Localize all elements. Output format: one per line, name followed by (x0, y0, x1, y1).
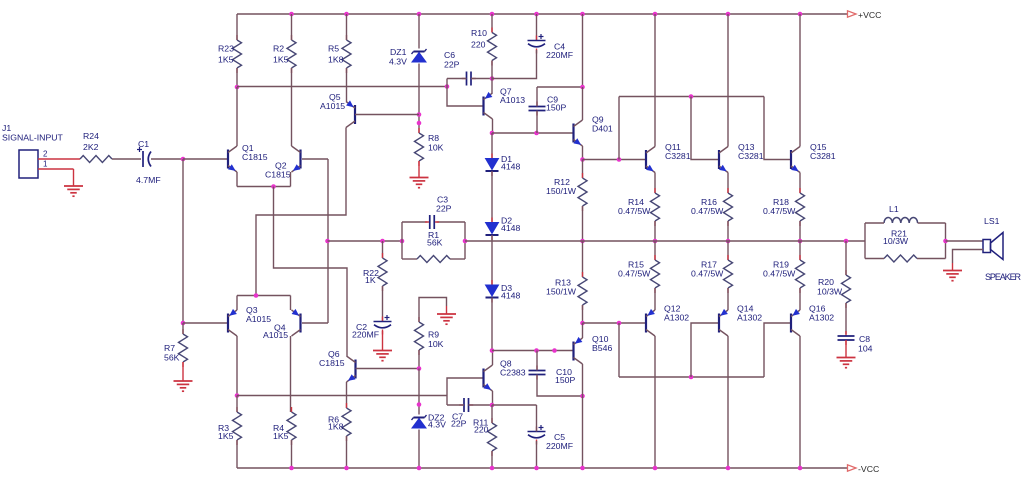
wire R11 to rail (491, 451, 493, 468)
wire R24 to C1 (112, 158, 141, 160)
wire Q9 emitter node to Q11 base (583, 159, 647, 161)
node R5 top rail junction (344, 12, 349, 17)
wire feedback node to R1 box (328, 240, 403, 242)
wire input node down to Q3 base (182, 159, 184, 323)
wire R13 to Q10 emitter node (582, 305, 584, 323)
node output mid junction (580, 239, 585, 244)
svg-text:0.47/5W: 0.47/5W (618, 206, 651, 216)
svg-text:R8: R8 (428, 133, 439, 143)
connector J1 (2, 123, 64, 178)
ground below C2 (373, 351, 392, 361)
wire D1 to D2 (491, 171, 493, 223)
label Q4 (263, 323, 288, 341)
capacitor C3 (425, 195, 452, 230)
wire node to Q3 base (183, 322, 228, 324)
wire Q11 emitter (654, 173, 656, 194)
wire feedback vertical (327, 159, 329, 323)
node speaker junction (943, 239, 948, 244)
node Q5 base junction (417, 112, 422, 117)
wire DZ2 to rail (418, 430, 420, 469)
capacitor C4 (528, 34, 574, 60)
svg-text:D401: D401 (592, 124, 613, 134)
svg-text:SIGNAL-INPUT: SIGNAL-INPUT (2, 133, 64, 143)
wire output network left side (864, 223, 866, 259)
svg-text:R7: R7 (164, 343, 175, 353)
wire Q3 collector to Q8 base line (237, 395, 447, 397)
speaker LS1 (983, 216, 1022, 282)
wire output network right side (945, 223, 947, 259)
svg-text:A1015: A1015 (263, 330, 288, 340)
node Q9 rail junction (580, 12, 585, 17)
diode D3 (486, 280, 521, 303)
node Q7 base rail junction (445, 84, 450, 89)
wire Q3 Q4 emitter rail (237, 295, 291, 297)
wire C6 left lead (447, 78, 467, 80)
wire output line right (583, 240, 866, 242)
resistor R14 (618, 188, 660, 226)
node Q10 emitter junction (580, 321, 585, 326)
diode D2 (486, 216, 521, 241)
transistor Q6 (347, 356, 356, 382)
wire Q5 collector path (256, 128, 346, 296)
resistor R1 (417, 230, 450, 263)
wire +VCC top rail (237, 13, 848, 15)
wire C2 to ground (382, 331, 384, 351)
wire Q16 collector to rail (799, 336, 801, 468)
svg-text:10K: 10K (428, 339, 444, 349)
node Q8 collector junction (490, 348, 495, 353)
svg-text:LS1: LS1 (984, 216, 1000, 226)
node Q13 rail junction (726, 12, 731, 17)
node feedback junction (325, 239, 330, 244)
resistor R23 (218, 35, 242, 73)
node Q10 base pin junction (552, 348, 557, 353)
svg-text:J1: J1 (2, 123, 11, 133)
transistor Q13 (719, 142, 764, 173)
svg-text:C1815: C1815 (319, 358, 345, 368)
wire +VCC to R23 (236, 14, 238, 40)
node DZ1 top rail junction (417, 12, 422, 17)
node A Q1 collector junction (235, 85, 240, 90)
wire Q9 emitter node to R12 (582, 160, 584, 179)
node upper bus junction (617, 157, 622, 162)
wire Q7 collector to Q9 base (492, 132, 574, 134)
svg-text:22P: 22P (451, 419, 467, 429)
wire Q1 collector rail (237, 86, 447, 88)
svg-text:C8: C8 (859, 334, 870, 344)
wire R1 box to output mid (465, 240, 583, 242)
svg-text:B546: B546 (592, 343, 612, 353)
ground above DZ2 via arm (437, 314, 456, 324)
svg-text:A1302: A1302 (737, 313, 762, 323)
wire R1 box top branch (402, 221, 465, 223)
wire Q6 base (356, 368, 420, 370)
wire rail to Q15 collector (799, 14, 801, 147)
wire Q13 emitter (727, 173, 729, 194)
wire Q8 base up (447, 378, 484, 396)
wire speaker ground stem (952, 263, 954, 271)
svg-text:56K: 56K (164, 353, 180, 363)
svg-text:R10: R10 (471, 28, 487, 38)
pin 1 of J1 (38, 160, 74, 170)
wire R22 top (382, 241, 384, 258)
wire Q10 emitter node to Q12 base (583, 322, 647, 324)
resistor R20 (817, 270, 851, 308)
wire Q2 emitter (290, 172, 292, 187)
node Q12 rail junction (653, 466, 658, 471)
wire R3 to rail (236, 440, 238, 468)
node R4 rail junction (289, 466, 294, 471)
wire Q8 collector (492, 351, 494, 366)
node Q7 emitter junction (490, 76, 495, 81)
svg-text:150P: 150P (546, 103, 566, 113)
svg-text:10K: 10K (428, 143, 444, 153)
transistor Q11 (646, 142, 691, 173)
node Q11 rail junction (653, 12, 658, 17)
wire R10 to Q7 emitter node (491, 61, 493, 79)
wire Q8 collector to Q10 base (492, 350, 574, 352)
svg-text:0.47/5W: 0.47/5W (691, 269, 724, 279)
wire R9 top to ground arm (419, 298, 447, 323)
node C9 bottom junction (534, 131, 539, 136)
node DZ2 rail junction (417, 466, 422, 471)
wire rail to DZ1 (418, 14, 420, 49)
wire upper bus riser right (764, 97, 791, 160)
svg-text:C1815: C1815 (242, 152, 268, 162)
wire Q8 emitter node to C5 (492, 404, 537, 406)
svg-text:-VCC: -VCC (858, 464, 879, 474)
svg-text:A1015: A1015 (246, 314, 271, 324)
wire Q14 collector to rail (727, 336, 729, 468)
resistor R17 (691, 255, 733, 293)
node C10 Q10 collector junction (580, 394, 585, 399)
svg-text:0.47/5W: 0.47/5W (691, 206, 724, 216)
resistor R1 with C3 box left side (401, 222, 403, 259)
wire output to R20 (845, 241, 847, 275)
svg-text:220MF: 220MF (546, 50, 573, 60)
wire C7 left lead (447, 404, 464, 406)
wire -VCC bottom rail (237, 467, 848, 469)
wire R16 to output line (727, 221, 729, 241)
node Q3 collector junction (235, 393, 240, 398)
resistor R11 (473, 418, 497, 457)
power +VCC arrow (848, 10, 882, 20)
resistor R12 (546, 173, 587, 211)
transistor Q12 (646, 304, 689, 337)
wire lower bus dropper left (618, 323, 620, 377)
node R8 pin junction (417, 121, 422, 126)
wire Q7 collector node to D1 (491, 133, 493, 159)
wire R15 to emitter (654, 288, 656, 310)
node Q9 emitter junction (580, 157, 585, 162)
wire rail to R2 (291, 14, 293, 40)
capacitor C8 (838, 331, 873, 354)
zener diode DZ1 (389, 47, 427, 67)
node Q7 collector junction (490, 131, 495, 136)
wire Q8 base from line (446, 396, 448, 406)
capacitor C9 (529, 95, 567, 116)
svg-text:4.3V: 4.3V (389, 57, 407, 67)
wire R18 to output line (799, 221, 801, 241)
resistor R13 (546, 272, 587, 310)
wire R1 box right side (464, 222, 466, 259)
svg-text:DZ1: DZ1 (390, 47, 407, 57)
svg-text:220: 220 (474, 425, 489, 435)
node Q8 emitter junction (490, 403, 495, 408)
svg-text:0.47/5W: 0.47/5W (763, 269, 796, 279)
node R2 top rail junction (289, 12, 294, 17)
wire upper bus riser mid (691, 97, 719, 160)
resistor R19 (763, 255, 805, 293)
node R14 output junction (653, 239, 658, 244)
wire C5 to rail (536, 441, 538, 468)
svg-text:R2: R2 (273, 44, 284, 54)
transistor Q5 (346, 100, 355, 127)
svg-text:1K8: 1K8 (328, 422, 344, 432)
wire Q1 collector (236, 87, 238, 146)
svg-text:C3281: C3281 (738, 151, 764, 161)
node R6 rail junction (344, 466, 349, 471)
resistor R7 (164, 329, 188, 367)
resistor R2 (273, 35, 296, 73)
node Q16 rail junction (798, 466, 803, 471)
resistor R8 (415, 128, 444, 166)
transistor Q16 (791, 304, 834, 337)
transistor Q15 (791, 142, 836, 173)
wire R23 to node A (236, 68, 238, 87)
resistor R24 (80, 131, 112, 163)
node lower bus junction (617, 321, 622, 326)
wire C9 bottom lead (536, 111, 538, 134)
capacitor C6 (444, 50, 476, 86)
svg-text:4148: 4148 (501, 291, 520, 301)
wire tail to Q6 collector (274, 187, 348, 357)
wire C5 top lead (536, 405, 538, 432)
resistor R10 (471, 28, 497, 66)
svg-text:220: 220 (471, 40, 486, 50)
node R16 output junction (726, 239, 731, 244)
svg-text:R5: R5 (328, 44, 339, 54)
wire rail to Q9 collector node (582, 14, 584, 87)
svg-text:220MF: 220MF (352, 330, 379, 340)
wire lower base bus (619, 376, 764, 378)
transistor Q3 (228, 309, 237, 336)
wire D2 to D3 (491, 235, 493, 285)
svg-text:A1013: A1013 (500, 95, 525, 105)
wire C7 right lead (469, 404, 493, 406)
resistor R6 (328, 403, 351, 441)
svg-text:C3281: C3281 (810, 151, 836, 161)
svg-text:1K: 1K (365, 275, 376, 285)
svg-text:1K5: 1K5 (218, 55, 234, 65)
wire C10 top lead (536, 351, 538, 371)
svg-text:A1302: A1302 (664, 313, 689, 323)
svg-text:4148: 4148 (501, 223, 520, 233)
wire C8 to ground (845, 340, 847, 358)
resistor R21 (883, 229, 917, 263)
node Q3 base junction (181, 321, 186, 326)
capacitor C5 (528, 425, 574, 451)
svg-text:0.47/5W: 0.47/5W (763, 206, 796, 216)
wire C1 to input node (151, 158, 183, 160)
wire C4 to Q7 emitter node (492, 50, 537, 79)
wire node up to C6 (446, 79, 448, 87)
resistor R15 (618, 255, 660, 293)
wire lower bus dropper mid (691, 323, 719, 377)
node input junction (181, 157, 186, 162)
svg-text:4.7MF: 4.7MF (136, 175, 161, 185)
node R18 output junction (798, 239, 803, 244)
wire Q3 collector (236, 336, 238, 396)
svg-text:150/1W: 150/1W (546, 186, 577, 196)
transistor Q9 (574, 115, 613, 147)
svg-text:22P: 22P (444, 60, 460, 70)
node diff pair tail junction (271, 184, 276, 189)
wire R5 to Q5 emitter (346, 68, 348, 102)
svg-text:C1815: C1815 (265, 170, 291, 180)
wire Q9 emitter (582, 146, 584, 160)
ground below R7 (174, 381, 193, 391)
node DZ2 pin junction (417, 402, 422, 407)
svg-text:1: 1 (43, 160, 48, 169)
node Q9 collector junction (580, 85, 585, 90)
svg-text:2: 2 (43, 150, 48, 159)
wire Q10 emitter (582, 323, 584, 338)
label Q6 (319, 349, 345, 368)
svg-text:10/3W: 10/3W (883, 236, 909, 246)
wire Q10 collector (582, 364, 584, 468)
wire R12 to output line (582, 206, 584, 241)
wire R19 to emitter (799, 288, 801, 310)
resistor R3 (218, 407, 242, 445)
capacitor C2 (352, 315, 392, 340)
svg-text:0.47/5W: 0.47/5W (618, 269, 651, 279)
node Q15 rail junction (798, 12, 803, 17)
transistor Q8 (484, 359, 526, 392)
wire output line to R19 (799, 241, 801, 260)
pin 2 of J1 (38, 150, 80, 160)
ground at speaker (943, 271, 962, 281)
wire upper base bus (619, 96, 764, 98)
resistor R4 (273, 407, 296, 445)
wire Q7 emitter (491, 79, 493, 94)
svg-text:22P: 22P (436, 204, 452, 214)
transistor Q4 (292, 309, 301, 336)
svg-text:C3281: C3281 (665, 151, 691, 161)
node lower pair tail junction (254, 293, 259, 298)
resistor R5 (328, 35, 351, 73)
wire Q3 emitter (236, 296, 238, 311)
wire R6 to rail (346, 436, 348, 468)
node R22 junction (380, 239, 385, 244)
zener diode DZ2 (412, 413, 447, 430)
wire R20 to C8 (845, 303, 847, 334)
svg-text:1K5: 1K5 (218, 431, 234, 441)
node R20 junction (844, 239, 849, 244)
wire rail to C4 (536, 14, 538, 41)
ground at J1 (64, 186, 83, 196)
wire output line to R17 (727, 241, 729, 260)
svg-text:SPEAKER: SPEAKER (985, 272, 1022, 282)
wire Q9 collector (582, 87, 584, 120)
wire Q6 emitter to R6 (346, 382, 348, 408)
wire Q4 collector (290, 336, 292, 412)
wire C9 top to Q9 collector node (537, 86, 583, 88)
node lower bus mid junction (689, 375, 694, 380)
wire output line to R15 (654, 241, 656, 260)
wire Q12 collector to rail (654, 336, 656, 468)
wire R9 bottom to Q6 base node (418, 350, 420, 369)
transistor Q14 (719, 304, 762, 337)
node Q14 rail junction (726, 466, 731, 471)
wire rail to Q13 collector (727, 14, 729, 147)
wire R21 bottom branch (865, 258, 946, 260)
wire node to R3 (236, 396, 238, 413)
wire Q15 emitter (799, 173, 801, 194)
wire rail to R5 (346, 14, 348, 40)
wire R2 to Q2 collector (291, 68, 293, 146)
wire rail to Q11 collector (654, 14, 656, 147)
svg-text:L1: L1 (889, 204, 899, 214)
wire upper bus riser left (618, 97, 620, 160)
wire R8 to ground (418, 161, 420, 178)
svg-text:R24: R24 (83, 131, 99, 141)
wire C6 right lead (471, 78, 492, 80)
wire to speaker (946, 240, 984, 242)
wire D3 to Q8 collector node (491, 298, 493, 351)
wire node to R11 (491, 405, 493, 423)
transistor Q10 (574, 334, 613, 364)
power -VCC arrow (848, 464, 880, 474)
svg-text:A1302: A1302 (809, 313, 834, 323)
capacitor C10 (529, 366, 576, 386)
transistor Q7 (484, 87, 526, 120)
wire Q1 emitter (236, 172, 238, 187)
wire Q7 collector (492, 119, 494, 133)
svg-text:R23: R23 (218, 44, 234, 54)
resistor R22 (363, 253, 387, 291)
svg-text:1K8: 1K8 (328, 55, 344, 65)
label Q5 (320, 92, 345, 111)
wire lower bus dropper right (764, 323, 791, 377)
wire DZ1 to Q5 base node (418, 64, 420, 134)
wire C9 top lead (536, 87, 538, 107)
wire Q8 emitter (492, 391, 494, 405)
transistor Q1 (228, 143, 268, 172)
wire Q4 emitter (290, 296, 292, 311)
wire speaker return (953, 250, 984, 264)
svg-text:1K5: 1K5 (273, 431, 289, 441)
wire Q1 Q2 emitter rail (237, 186, 291, 188)
wire Q3-base node to R7 (182, 323, 184, 334)
wire R1 box bottom branch (402, 258, 465, 260)
svg-text:C1: C1 (138, 139, 149, 149)
node Q6 base junction (417, 366, 422, 371)
label Q2 (265, 161, 291, 180)
svg-text:2K2: 2K2 (83, 142, 99, 152)
node Q10 rail junction (580, 466, 585, 471)
svg-text:C2383: C2383 (500, 368, 526, 378)
svg-text:R9: R9 (428, 330, 439, 340)
ground below R8 (410, 178, 429, 188)
resistor R16 (691, 188, 733, 226)
svg-text:A1015: A1015 (320, 101, 345, 111)
wire L1 top branch (865, 222, 946, 224)
wire ground arm stem (446, 306, 448, 314)
wire Q6 base node to DZ2 (418, 369, 420, 415)
wire R7 to ground (182, 362, 184, 381)
node R1 box right junction (463, 239, 468, 244)
